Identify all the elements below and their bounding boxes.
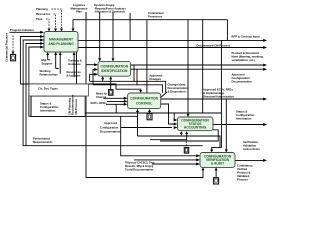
svg-text:ECPs, RFDs: ECPs, RFDs bbox=[91, 101, 108, 105]
svg-text:CONFIGURATION: CONFIGURATION bbox=[130, 97, 158, 101]
svg-text:Provisions: Provisions bbox=[148, 14, 163, 18]
svg-text:Guidance: Guidance bbox=[68, 62, 81, 66]
svg-text:Change: Change bbox=[96, 95, 107, 99]
svg-text:Information: Information bbox=[40, 109, 56, 113]
svg-text:Process: Process bbox=[237, 178, 248, 182]
svg-text:Action Items: Action Items bbox=[243, 147, 260, 151]
svg-text:& Disposition: & Disposition bbox=[168, 90, 186, 94]
svg-text:Measurements: Measurements bbox=[33, 140, 53, 144]
svg-text:ACCOUNTING: ACCOUNTING bbox=[184, 126, 207, 130]
svg-text:Documentation: Documentation bbox=[232, 79, 253, 83]
svg-text:& facilities: & facilities bbox=[67, 73, 81, 77]
svg-text:Documentation: Documentation bbox=[100, 130, 121, 134]
svg-text:Plan: Plan bbox=[76, 10, 82, 14]
svg-text:AND PLANNING: AND PLANNING bbox=[48, 42, 74, 46]
svg-text:serialization, etc.): serialization, etc.) bbox=[232, 58, 256, 62]
svg-text:IDENTIFICATION: IDENTIFICATION bbox=[101, 69, 128, 73]
svg-text:Changes: Changes bbox=[149, 77, 161, 81]
svg-text:-Allocation & Synthesis: -Allocation & Synthesis bbox=[94, 10, 126, 14]
svg-text:Support: Support bbox=[42, 61, 53, 65]
svg-text:Information: Information bbox=[236, 117, 252, 121]
svg-text:Program Initiation: Program Initiation bbox=[10, 28, 34, 32]
svg-text:Documented CM Process: Documented CM Process bbox=[197, 43, 231, 47]
svg-text:CONTROL: CONTROL bbox=[136, 101, 152, 105]
svg-text:Planning: Planning bbox=[36, 7, 48, 11]
svg-text:& AUDIT: & AUDIT bbox=[211, 161, 224, 165]
svg-text:CM Process: CM Process bbox=[74, 99, 78, 115]
svg-text:Direction/Authorization: Direction/Authorization bbox=[203, 94, 234, 98]
svg-text:Tools/Documentation: Tools/Documentation bbox=[125, 167, 154, 171]
svg-text:RFP & Contract Input: RFP & Contract Input bbox=[232, 35, 260, 39]
svg-text:CONFIGURATION: CONFIGURATION bbox=[101, 65, 129, 69]
svg-text:MANAGEMENT: MANAGEMENT bbox=[49, 38, 73, 42]
svg-text:Resources: Resources bbox=[36, 12, 51, 16]
svg-text:Commercial Practices: Commercial Practices bbox=[5, 32, 9, 62]
svg-text:CIs, Doc Types: CIs, Doc Types bbox=[38, 86, 58, 90]
svg-text:Relationships: Relationships bbox=[40, 72, 59, 76]
svg-text:Time: Time bbox=[36, 17, 43, 21]
